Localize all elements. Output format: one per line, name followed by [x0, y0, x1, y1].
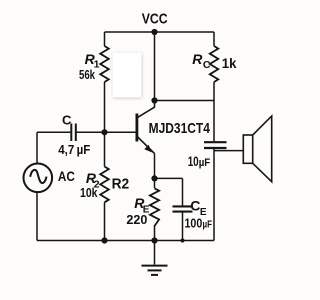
wire base node to transistor base [105, 131, 136, 133]
wire to speaker [214, 150, 243, 152]
svg-text:µF: µF [203, 219, 213, 231]
svg-text:1k: 1k [222, 55, 237, 71]
svg-text:56k: 56k [79, 67, 96, 82]
svg-text:4,7 µF: 4,7 µF [58, 142, 90, 157]
wire R2 bottom lead [104, 202, 106, 240]
node base junction [101, 129, 107, 135]
svg-text:R: R [192, 51, 203, 67]
svg-text:100: 100 [185, 216, 203, 231]
svg-text:10k: 10k [80, 185, 98, 200]
resistor R2 [100, 167, 109, 203]
node RE ground junction [151, 237, 157, 243]
wire RE top lead [154, 178, 156, 188]
node collector junction [151, 97, 157, 103]
label R2 italic [86, 170, 100, 191]
node VCC junction [151, 29, 157, 35]
capacitor C plates [71, 124, 76, 142]
label 100uF [185, 216, 213, 231]
wire collector node to RC branch [155, 100, 215, 102]
wire AC source to capacitor C [37, 131, 70, 133]
wire top VCC rail [105, 31, 215, 33]
capacitor CE plates [173, 206, 193, 211]
svg-text:C: C [62, 113, 72, 128]
wire CE bottom lead [182, 212, 184, 241]
wire RC top lead [213, 32, 215, 46]
wire output cap to ground rail [213, 149, 215, 241]
wire AC source top lead [36, 132, 38, 163]
wire AC source bottom lead [36, 192, 38, 241]
wire base node to R2 top [104, 132, 106, 166]
node CE ground junction [181, 239, 185, 243]
svg-text:C: C [190, 198, 200, 214]
node R2 ground junction [101, 237, 107, 243]
label 10uF [188, 154, 211, 169]
wire bottom ground rail [37, 240, 214, 242]
wire CE top lead [182, 178, 184, 205]
transistor Q1 MJD31CT4 [137, 101, 155, 154]
capacitor 10uF plates [204, 142, 227, 148]
wire R1 bottom lead to base node [104, 82, 106, 132]
label R1 [85, 51, 100, 70]
svg-text:µF: µF [199, 157, 211, 169]
wire R1 top lead [104, 32, 106, 46]
svg-text:220: 220 [126, 212, 147, 227]
svg-text:10: 10 [188, 154, 199, 169]
wire emitter vertical [154, 154, 156, 179]
label CE [190, 198, 207, 218]
wire RC bottom lead to output cap [213, 82, 215, 141]
wire RE bottom lead [154, 225, 156, 241]
svg-text:MJD31CT4: MJD31CT4 [149, 120, 211, 137]
ground [142, 241, 168, 275]
white overlay box [113, 53, 142, 98]
speaker [243, 116, 271, 182]
resistor RC [210, 46, 219, 82]
svg-text:AC: AC [58, 168, 75, 184]
label RE [134, 195, 150, 215]
svg-text:VCC: VCC [142, 11, 168, 28]
wire emitter node to CE branch [155, 177, 183, 179]
svg-text:R2: R2 [112, 177, 130, 193]
wire capacitor C to base node [77, 131, 136, 133]
resistor R1 [100, 46, 109, 82]
svg-text:C: C [203, 59, 211, 71]
resistor RE [150, 188, 159, 226]
node emitter junction [151, 175, 157, 181]
AC source [24, 164, 53, 193]
label RC [192, 51, 211, 71]
wire VCC stub to collector node [154, 32, 156, 101]
